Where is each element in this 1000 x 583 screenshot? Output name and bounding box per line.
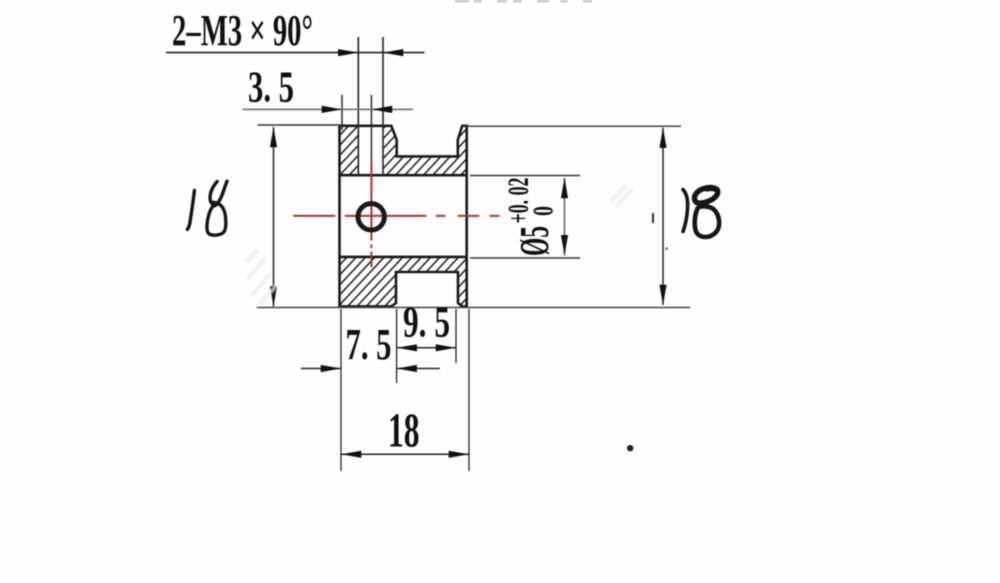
phi5 dim: bottom extension line (470, 257, 580, 259)
bottom 18 dim: right extension line (468, 309, 470, 471)
right 18 dim: vertical line (662, 128, 664, 305)
left 18 dim: top arrow (270, 127, 277, 147)
dim 2-M3x90: left arrow (338, 49, 358, 56)
phi5 dim: rotated text (502, 178, 560, 257)
dim 3.5: left arrow (322, 106, 342, 113)
svg-text:2–M3 × 90°: 2–M3 × 90° (172, 6, 313, 55)
dim 9.5: line (397, 347, 456, 349)
bottom 18 dim: right arrow (449, 451, 469, 458)
bore circle (358, 204, 384, 230)
svg-text:3. 5: 3. 5 (248, 63, 294, 112)
bottom 18 dim: left arrow (341, 451, 361, 458)
hatch left flange (340, 126, 359, 175)
dim 9.5: left extension line (396, 309, 398, 383)
right 18 dim: small tick (652, 213, 654, 223)
right 18 dim: bottom extension line (257, 307, 690, 309)
screw hole centerline black part (370, 95, 372, 162)
dim 9.5: left arrow (397, 344, 417, 351)
right 18 dim: top arrow (659, 128, 666, 148)
dim 2-M3x90: leader line (166, 52, 425, 54)
svg-text:9. 5: 9. 5 (403, 298, 450, 347)
dim 9.5: right arrow (436, 344, 456, 351)
phi5 dim: bottom arrow (561, 235, 568, 255)
screw hole right edge (382, 37, 384, 175)
dim 3.5: right arrow (372, 106, 392, 113)
svg-text:0: 0 (529, 206, 560, 216)
bore bottom line (340, 256, 467, 259)
left 18 handwritten text (187, 181, 227, 235)
dim 3.5: line (243, 108, 413, 110)
left 18 dim: top extension line (258, 124, 345, 126)
bottom 18 dim: left extension line (340, 309, 342, 471)
dim 9.5: right extension line (455, 309, 457, 363)
svg-text:Ø5: Ø5 (511, 226, 557, 256)
phi5 dim: top arrow (561, 178, 568, 198)
top edge faint marks (455, 0, 592, 3)
dim 2-M3x90: right arrow (383, 49, 403, 56)
svg-text:18: 18 (388, 403, 420, 458)
dim 7.5: right line with arrow (397, 368, 440, 370)
phi5 dim: top extension line (470, 175, 580, 177)
right 18 handwritten text (683, 188, 719, 238)
left face extension line up (341, 95, 343, 130)
dim 7.5: left line with arrow (301, 368, 341, 370)
left 18 dim: vertical line (273, 127, 275, 307)
left 18 dim: bottom arrow (270, 286, 277, 306)
stray dot (627, 445, 633, 451)
phi5 dim: vertical line (564, 178, 566, 255)
bore top line (340, 174, 467, 177)
hatch bottom block (340, 257, 467, 307)
right 18 dim: top extension line (462, 125, 681, 127)
red vertical centerline (370, 162, 372, 267)
body outline (340, 126, 467, 307)
faint ghost smudges (246, 186, 632, 303)
bottom 18 dim: line (341, 453, 469, 455)
svg-text:7. 5: 7. 5 (346, 320, 392, 369)
screw hole left edge (357, 37, 359, 175)
red horizontal centerline (293, 215, 499, 217)
hatch strip right of screw hole (383, 126, 397, 175)
tiny dot near right dim (665, 247, 668, 250)
right 18 dim: bottom arrow (659, 285, 666, 305)
hatch rim band and right flange (397, 126, 467, 175)
